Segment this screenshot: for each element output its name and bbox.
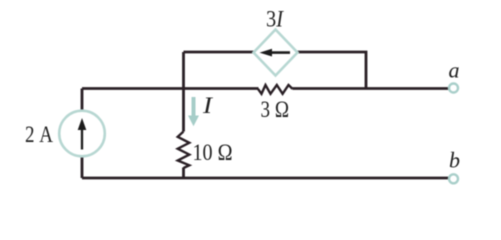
svg-text:I: I <box>202 93 214 118</box>
svg-text:3 Ω: 3 Ω <box>261 97 290 122</box>
svg-text:a: a <box>449 58 460 83</box>
svg-text:10 Ω: 10 Ω <box>193 140 233 165</box>
svg-text:b: b <box>449 148 460 173</box>
svg-text:3I: 3I <box>266 7 284 32</box>
svg-text:2 A: 2 A <box>25 122 53 147</box>
